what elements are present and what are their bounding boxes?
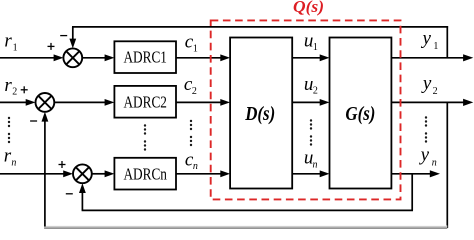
dots column between ADRC2 and ADRCn <box>144 124 146 150</box>
svg-text:2: 2 <box>433 86 438 97</box>
svg-text:n: n <box>432 158 437 169</box>
wire u2 D to G <box>292 101 321 103</box>
summer Sn minus sign <box>66 193 73 195</box>
wire S2 to ADRC2 <box>54 101 106 103</box>
summer Sn plus sign <box>59 161 66 168</box>
svg-text:r: r <box>4 75 12 96</box>
svg-text:y: y <box>421 73 432 94</box>
summing junction S2 <box>36 93 55 112</box>
wire y1 feedback top horizontal <box>72 26 448 28</box>
svg-text:1: 1 <box>13 42 18 53</box>
wire y2 feedback bottom band <box>44 226 447 230</box>
wire ADRC1 to D(s) <box>176 57 222 59</box>
summer S1 minus sign <box>60 35 67 37</box>
svg-text:D(s): D(s) <box>244 103 275 125</box>
block ADRC1 <box>114 41 176 73</box>
wire yn output <box>391 173 431 175</box>
svg-text:y: y <box>421 28 432 49</box>
dots column y labels <box>425 116 427 142</box>
wire y2 feedback vertical down right <box>446 102 448 228</box>
svg-text:ADRC2: ADRC2 <box>123 92 167 111</box>
wire rn input <box>0 173 65 175</box>
wire yn feedback vertical down <box>411 174 413 211</box>
wire un D to G <box>292 173 321 175</box>
wire yn feedback vertical up into Sn <box>81 191 83 210</box>
svg-text:n: n <box>11 157 16 168</box>
summing junction Sn <box>73 164 92 183</box>
block ADRC2 <box>114 86 176 118</box>
wire y1 output <box>391 57 464 59</box>
dots column left between r2 and rn <box>8 117 10 143</box>
summing junction S1 <box>63 48 82 67</box>
svg-text:1: 1 <box>433 41 438 52</box>
dots column c labels <box>190 120 192 146</box>
wire ADRCn to D(s) <box>176 173 222 175</box>
svg-text:ADRCn: ADRCn <box>123 164 167 183</box>
wire y1 feedback vertical up <box>446 26 448 58</box>
block G(s) <box>330 38 392 189</box>
dots column u labels <box>310 119 312 145</box>
wire S1 to ADRC1 <box>82 57 106 59</box>
wire Sn to ADRCn <box>92 173 106 175</box>
block D(s) <box>230 38 292 189</box>
svg-text:ADRC1: ADRC1 <box>123 48 167 67</box>
svg-text:n: n <box>193 161 198 172</box>
wire y2 feedback vertical up left into S2 <box>44 120 46 227</box>
svg-text:1: 1 <box>193 43 198 54</box>
svg-text:G(s): G(s) <box>345 103 375 125</box>
wire u1 D to G <box>292 57 321 59</box>
svg-text:1: 1 <box>313 42 318 53</box>
svg-text:2: 2 <box>313 86 318 97</box>
summer S1 plus sign <box>48 43 55 50</box>
wire yn feedback bottom horizontal <box>82 209 413 211</box>
wire y1 feedback drop into S1 <box>72 27 74 41</box>
svg-text:n: n <box>313 159 318 170</box>
svg-text:r: r <box>4 31 12 52</box>
wire y2 output <box>391 101 464 103</box>
boundary Q(s) dashed box <box>211 20 401 199</box>
wire ADRC2 to D(s) <box>176 101 222 103</box>
svg-text:2: 2 <box>192 86 197 97</box>
svg-text:y: y <box>419 145 430 166</box>
wire r2 input <box>0 101 27 103</box>
wire r1 input <box>0 57 55 59</box>
block ADRCn <box>114 158 176 190</box>
svg-text:Q(s): Q(s) <box>293 0 324 16</box>
summer S2 minus sign <box>30 120 37 122</box>
svg-text:2: 2 <box>12 87 17 98</box>
summer S2 plus sign <box>21 86 28 93</box>
